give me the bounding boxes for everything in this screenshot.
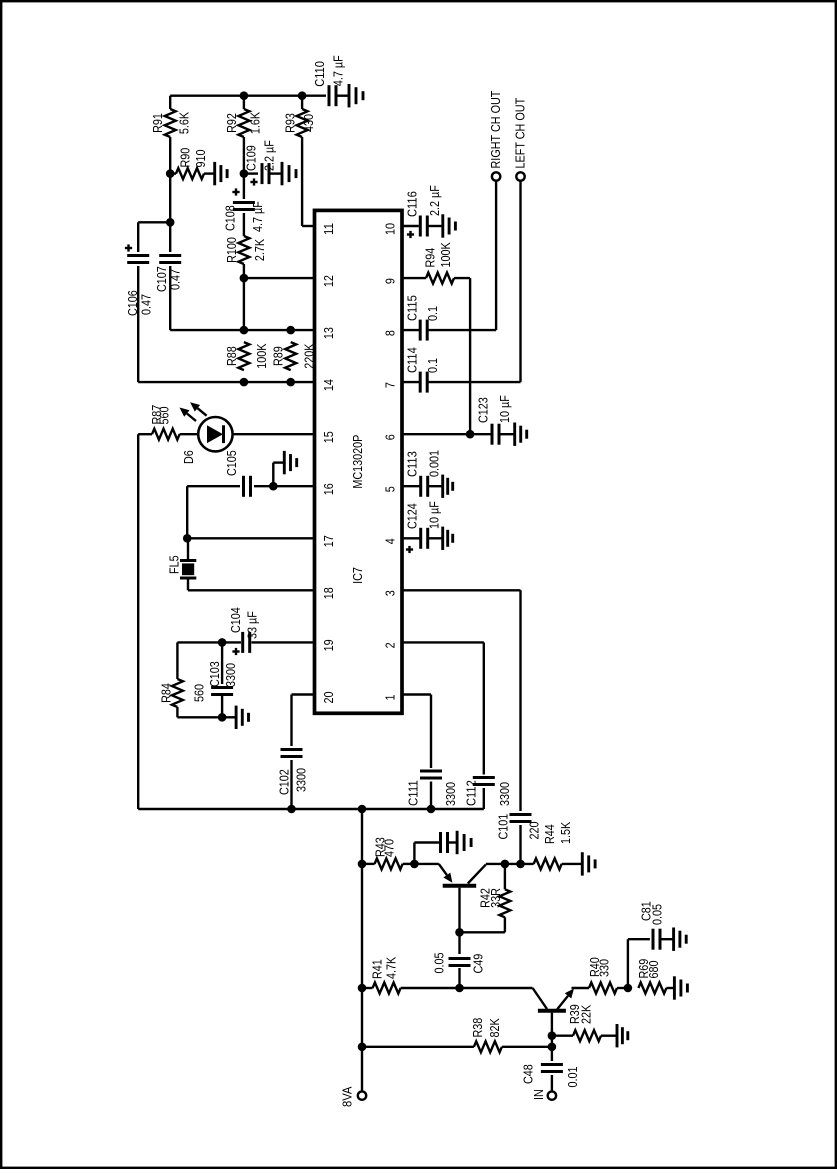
- wire pin 12 net: [244, 277, 315, 279]
- svg-text:C114: C114: [404, 347, 419, 373]
- junction pin19-C103: [218, 638, 227, 647]
- svg-text:R90: R90: [178, 148, 193, 168]
- wire base node to R39: [552, 1034, 573, 1036]
- wire ground branch up: [272, 463, 274, 487]
- svg-text:15: 15: [321, 431, 336, 443]
- svg-text:22K: 22K: [579, 1005, 594, 1024]
- capacitor C110 4.7uF: [312, 55, 346, 106]
- svg-text:R93: R93: [283, 113, 298, 133]
- ground at R90: [204, 162, 227, 185]
- svg-text:12: 12: [321, 275, 336, 287]
- wire R43 to cap node: [403, 863, 415, 865]
- wire R90 left lead: [170, 172, 176, 174]
- wire C108 to R100: [243, 213, 245, 236]
- junction C106 branch: [166, 218, 175, 227]
- ground at C116: [427, 214, 455, 237]
- capacitor C107 0.47: [154, 256, 182, 293]
- wire base node to C49: [458, 932, 460, 954]
- pin number 20: [321, 692, 336, 704]
- svg-text:C123: C123: [476, 397, 491, 423]
- wire left ch vertical: [519, 181, 521, 382]
- svg-text:R44: R44: [542, 824, 557, 844]
- svg-text:R100: R100: [224, 237, 239, 263]
- resistor R38: [470, 1018, 502, 1053]
- svg-text:C112: C112: [463, 780, 478, 806]
- junction pin14-R89: [286, 378, 295, 387]
- svg-text:3: 3: [382, 590, 397, 596]
- pin number 16: [321, 483, 336, 495]
- resistor R90: [176, 148, 208, 179]
- wire FL5 top lead: [187, 538, 189, 560]
- wire to C106: [138, 221, 170, 223]
- wire C101 to Q1 row: [519, 825, 521, 864]
- capacitor C103 3300: [207, 661, 238, 694]
- wire Q2 emitter to R40: [572, 987, 590, 989]
- wire C103 top lead: [221, 642, 223, 684]
- svg-text:1.5K: 1.5K: [558, 822, 573, 844]
- wire C107 top lead: [169, 222, 171, 252]
- junction Q1 base node: [455, 928, 464, 937]
- svg-text:C105: C105: [224, 450, 239, 476]
- wire top supply rail: [170, 94, 326, 96]
- svg-text:33R: 33R: [488, 888, 503, 908]
- svg-text:0.1: 0.1: [425, 358, 440, 373]
- svg-text:C113: C113: [404, 451, 419, 477]
- svg-text:10: 10: [382, 223, 397, 235]
- wire R84 bottom lead: [176, 707, 178, 717]
- ground at Q1 bypass: [448, 831, 472, 854]
- svg-text:D6: D6: [181, 450, 196, 464]
- junction rail-C111: [427, 805, 436, 814]
- svg-text:9: 9: [382, 278, 397, 284]
- svg-text:2.2 µF: 2.2 µF: [427, 185, 442, 216]
- svg-text:R38: R38: [470, 1018, 485, 1038]
- svg-text:LEFT CH OUT: LEFT CH OUT: [513, 98, 528, 169]
- wire bypass cap branch up: [413, 843, 415, 864]
- svg-text:4: 4: [382, 538, 397, 544]
- junction pin12-R100: [240, 274, 249, 283]
- wire R100 to pin12: [243, 264, 245, 278]
- svg-text:2: 2: [382, 642, 397, 648]
- wire pin8 seg b: [427, 329, 496, 331]
- transistor Q2: [533, 988, 574, 1047]
- svg-text:3300: 3300: [497, 782, 512, 806]
- svg-text:100K: 100K: [254, 343, 269, 368]
- junction supply-R38: [358, 1043, 367, 1052]
- resistor R88: [224, 342, 269, 370]
- capacitor C109 2.2uF polarized: [244, 140, 277, 185]
- svg-text:470: 470: [382, 839, 397, 857]
- ground at R44: [562, 852, 595, 875]
- svg-text:C115: C115: [404, 295, 419, 321]
- svg-text:910: 910: [193, 150, 208, 168]
- wire pin 1 stub: [402, 693, 431, 695]
- wire C48 to IN: [551, 1075, 553, 1091]
- svg-text:13: 13: [321, 327, 336, 339]
- resistor R93: [283, 109, 317, 137]
- pin number 4: [382, 538, 397, 544]
- capacitor C108 4.7uF polarized: [222, 188, 264, 232]
- wire pin16 corner down: [186, 486, 188, 538]
- svg-text:16: 16: [321, 483, 336, 495]
- pin number 13: [321, 327, 336, 339]
- svg-text:33 µF: 33 µF: [245, 611, 260, 639]
- resistor R42: [478, 888, 511, 917]
- pin number 2: [382, 642, 397, 648]
- svg-text:C108: C108: [222, 205, 237, 231]
- svg-text:430: 430: [301, 114, 316, 132]
- wire pin20 down to C102: [290, 695, 292, 747]
- svg-text:4.7 µF: 4.7 µF: [331, 55, 346, 86]
- svg-text:330: 330: [597, 959, 612, 977]
- pin number 17: [321, 535, 336, 547]
- wire R92 to C109 node: [243, 137, 245, 174]
- wire C105 to pin 16: [254, 485, 315, 487]
- ground at C81: [660, 928, 686, 951]
- pin number 6: [382, 434, 397, 440]
- wire bottom rail: [138, 808, 484, 810]
- wire R91 top lead: [169, 96, 171, 109]
- svg-text:2.2 µF: 2.2 µF: [262, 140, 277, 171]
- junction pin13-R88: [240, 326, 249, 335]
- wire C111 to rail: [430, 782, 432, 810]
- svg-text:3300: 3300: [223, 663, 238, 687]
- wire base node down to C48: [551, 1047, 553, 1061]
- wire R94 net down to pin6: [469, 278, 471, 434]
- wire pin7 seg a: [402, 381, 420, 383]
- svg-text:220K: 220K: [302, 343, 317, 368]
- wire left rail: [137, 434, 139, 809]
- wire R42 bottom lead: [504, 917, 506, 932]
- svg-text:C103: C103: [207, 661, 222, 687]
- svg-text:C48: C48: [520, 1064, 535, 1084]
- wire R40 to C81 node: [617, 987, 628, 989]
- wire C112 to rail: [483, 788, 485, 809]
- wire pin 17 net: [187, 537, 314, 539]
- terminal 8VA: [340, 1086, 367, 1107]
- svg-text:IN: IN: [531, 1089, 546, 1100]
- svg-text:FL5: FL5: [166, 555, 181, 574]
- wire pin 20 stub: [292, 693, 315, 695]
- wire pin16 left seg: [187, 485, 240, 487]
- resistor R41: [370, 957, 401, 994]
- wire pin7 seg b: [427, 381, 520, 383]
- ground at C124: [428, 527, 453, 550]
- wire to Q2 collector: [460, 987, 533, 989]
- wire Q1 collector lead: [486, 863, 534, 865]
- svg-text:10 µF: 10 µF: [497, 395, 512, 423]
- capacitor C123 10uF: [476, 395, 512, 445]
- wire R42 top lead: [504, 864, 506, 889]
- svg-text:0.05: 0.05: [431, 953, 446, 974]
- resistor R91: [150, 109, 191, 137]
- svg-text:5: 5: [382, 486, 397, 492]
- resistor R89: [271, 342, 317, 370]
- pin number 9: [382, 278, 397, 284]
- wire pin 2 net: [402, 641, 484, 643]
- wire R94 to corner: [454, 277, 470, 279]
- junction Q1-R42: [501, 860, 510, 869]
- capacitor C111 3300: [406, 771, 459, 806]
- resistor R92: [224, 109, 263, 137]
- wire R93 to pin11: [301, 137, 303, 226]
- pin number 11: [321, 223, 336, 235]
- svg-text:20: 20: [321, 692, 336, 704]
- svg-text:0.01: 0.01: [565, 1067, 580, 1088]
- terminal LEFT CH OUT: [513, 98, 528, 181]
- capacitor C102 3300: [277, 750, 309, 796]
- junction pin13-R89: [286, 326, 295, 335]
- wire pin 13 net: [170, 329, 314, 331]
- capacitor C115 0.1: [404, 295, 440, 340]
- wire R90 node down to C106/C107 node: [169, 174, 171, 223]
- resonator FL5: [166, 555, 196, 578]
- svg-text:C49: C49: [471, 954, 486, 974]
- pin number 7: [382, 382, 397, 388]
- svg-text:4.7 µF: 4.7 µF: [250, 201, 265, 232]
- wire pin 11 net: [302, 225, 314, 227]
- terminal IN: [531, 1089, 556, 1100]
- junction pin14-R88: [240, 378, 249, 387]
- ground at C109: [269, 162, 296, 185]
- wire R84 top lead: [176, 642, 178, 679]
- svg-text:8: 8: [382, 330, 397, 336]
- capacitor bypass at Q1: [414, 832, 447, 853]
- wire supply vertical: [361, 809, 363, 1091]
- pin number 12: [321, 275, 336, 287]
- svg-text:19: 19: [321, 639, 336, 651]
- svg-text:1.6K: 1.6K: [248, 112, 263, 134]
- wire pin 6 net: [402, 433, 491, 435]
- pin number 3: [382, 590, 397, 596]
- svg-text:C109: C109: [244, 145, 259, 171]
- svg-text:1: 1: [382, 695, 397, 701]
- wire C49 to R41 row: [458, 968, 460, 988]
- svg-text:C102: C102: [277, 769, 292, 795]
- resistor R84: [159, 679, 207, 707]
- svg-text:C124: C124: [404, 503, 419, 529]
- svg-text:0.47: 0.47: [139, 294, 154, 315]
- svg-text:R41: R41: [370, 959, 385, 979]
- capacitor C112 3300: [463, 778, 512, 807]
- svg-text:C104: C104: [228, 607, 243, 633]
- resistor R40: [587, 957, 617, 993]
- svg-text:220: 220: [526, 822, 541, 840]
- wire pin19 left seg: [177, 641, 241, 643]
- IC reference IC7: [350, 567, 365, 584]
- pin number 18: [321, 587, 336, 599]
- wire pin8 seg a: [402, 329, 420, 331]
- ground at pin16: [273, 451, 296, 474]
- svg-text:8VA: 8VA: [340, 1086, 355, 1107]
- wire pin 14 net: [138, 381, 314, 383]
- wire pin 3 net: [402, 589, 521, 591]
- wire pin1 down: [430, 695, 432, 769]
- svg-text:C101: C101: [496, 814, 511, 840]
- svg-text:11: 11: [321, 223, 336, 235]
- wire C102 to bottom rail: [290, 760, 292, 809]
- svg-text:IC7: IC7: [350, 567, 365, 584]
- capacitor C113 0.001: [402, 450, 441, 497]
- svg-text:7: 7: [382, 382, 397, 388]
- junction rail-C102: [287, 805, 296, 814]
- svg-text:RIGHT CH OUT: RIGHT CH OUT: [488, 91, 503, 169]
- capacitor C116 2.2uF polarized: [402, 185, 442, 238]
- wire pin9 to R94: [402, 277, 426, 279]
- wire R91 to R90 node: [169, 137, 171, 174]
- svg-text:C111: C111: [406, 780, 421, 806]
- capacitor C49 0.05: [431, 953, 485, 974]
- wire right ch vertical: [495, 181, 497, 330]
- wire R87 to D6: [180, 433, 199, 435]
- capacitor C105: [224, 450, 251, 497]
- svg-text:MC13020P: MC13020P: [350, 435, 365, 489]
- svg-text:R88: R88: [224, 346, 239, 366]
- ground at C103: [222, 706, 248, 729]
- junction Q2 base-R39: [548, 1031, 557, 1040]
- wire supply to R43: [362, 863, 375, 865]
- svg-text:560: 560: [192, 684, 207, 702]
- svg-text:0.05: 0.05: [650, 904, 665, 925]
- junction rail-supply: [358, 805, 367, 814]
- resistor R44: [534, 822, 574, 870]
- junction supply-R41: [358, 984, 367, 993]
- pin number 5: [382, 486, 397, 492]
- wire supply to R38: [362, 1046, 474, 1048]
- svg-text:14: 14: [321, 379, 336, 391]
- svg-text:560: 560: [157, 407, 172, 425]
- ground at C110: [336, 84, 363, 107]
- svg-text:6: 6: [382, 434, 397, 440]
- svg-text:R89: R89: [271, 346, 286, 366]
- wire pin 18 net: [188, 589, 315, 591]
- svg-text:C116: C116: [404, 191, 419, 217]
- svg-text:C110: C110: [312, 61, 327, 87]
- resistor R69: [636, 959, 666, 994]
- junction rail-R93: [298, 91, 307, 100]
- resistor R39: [567, 1004, 601, 1041]
- junction pin17-FL5: [183, 534, 192, 543]
- ground at C123: [499, 423, 527, 446]
- svg-text:R84: R84: [159, 683, 174, 703]
- svg-text:18: 18: [321, 587, 336, 599]
- LED D6: [180, 402, 233, 464]
- junction rail-R92: [240, 91, 249, 100]
- junction R40-R69-C81: [624, 984, 633, 993]
- terminal RIGHT CH OUT: [488, 91, 503, 181]
- capacitor C114 0.1: [404, 347, 440, 392]
- wire R100 node down to pin13: [243, 278, 245, 330]
- junction R92-C109: [240, 169, 249, 178]
- wire FL5 bottom lead: [187, 578, 189, 590]
- pin number 1: [382, 695, 397, 701]
- IC U-IC7 MC13020P body: [315, 210, 403, 713]
- svg-text:5.6K: 5.6K: [177, 112, 192, 134]
- wire R92 top lead: [243, 96, 245, 109]
- svg-text:4.7K: 4.7K: [384, 957, 399, 979]
- ground at C113: [428, 475, 453, 498]
- wire supply to R41: [362, 987, 373, 989]
- pin number 19: [321, 639, 336, 651]
- wire R87 left lead: [138, 433, 152, 435]
- capacitor C106 0.47 polarized: [125, 244, 154, 316]
- ground at R69: [666, 976, 687, 999]
- junction C103-gnd: [218, 713, 227, 722]
- pin number 10: [382, 223, 397, 235]
- wire C103 bottom lead: [221, 695, 223, 718]
- svg-text:2.7K: 2.7K: [252, 239, 267, 261]
- wire C81 branch up: [627, 939, 629, 988]
- wire R41 to C49 node: [401, 987, 460, 989]
- junction pin6-R94: [466, 430, 475, 439]
- wire pin2 down: [483, 642, 485, 774]
- svg-text:3300: 3300: [294, 768, 309, 792]
- resistor R43: [373, 837, 403, 869]
- junction C49-R41 row: [455, 984, 464, 993]
- capacitor C104 33uF polarized: [228, 607, 260, 655]
- wire C106 to pin14 line: [137, 266, 139, 382]
- wire R38 to base node: [502, 1046, 552, 1048]
- capacitor C124 10uF polarized: [402, 501, 441, 553]
- svg-text:0.001: 0.001: [426, 450, 441, 477]
- junction Q1-C101: [516, 860, 525, 869]
- pin number 15: [321, 431, 336, 443]
- wire C107 to pin13 line: [169, 266, 171, 330]
- junction Q2 base-R38: [548, 1043, 557, 1052]
- capacitor C81 0.05: [628, 901, 665, 950]
- svg-text:82K: 82K: [487, 1018, 502, 1037]
- svg-text:R92: R92: [224, 113, 239, 133]
- resistor R100: [224, 236, 267, 264]
- capacitor C48 0.01: [520, 1064, 580, 1087]
- wire R42 to base node: [460, 931, 505, 933]
- resistor R87: [149, 405, 180, 440]
- svg-text:3300: 3300: [443, 782, 458, 806]
- svg-text:680: 680: [646, 961, 661, 979]
- ground at R39: [601, 1024, 628, 1047]
- svg-text:10 µF: 10 µF: [426, 501, 441, 529]
- wire C106 top lead: [137, 222, 139, 252]
- resistor R94: [423, 242, 455, 284]
- svg-text:0.1: 0.1: [425, 306, 440, 321]
- wire C104 to pin 19: [251, 641, 314, 643]
- svg-text:100K: 100K: [438, 242, 453, 267]
- IC part number MC13020P: [350, 435, 365, 489]
- pin number 14: [321, 379, 336, 391]
- wire R93 top lead: [301, 96, 303, 109]
- wire pin3 down: [519, 590, 521, 811]
- wire D6 to pin 15: [233, 433, 315, 435]
- junction pin16 ground branch: [269, 482, 278, 491]
- wire node to Q1 emitter: [414, 863, 438, 865]
- junction Q1 emitter node: [410, 860, 419, 869]
- svg-text:R91: R91: [150, 113, 165, 133]
- junction R91-R90: [166, 169, 175, 178]
- pin number 8: [382, 330, 397, 336]
- transistor Q1: [439, 864, 486, 932]
- junction supply-R43: [358, 860, 367, 869]
- svg-text:17: 17: [321, 535, 336, 547]
- svg-text:R94: R94: [423, 248, 438, 268]
- wire R84 to gnd node: [177, 716, 222, 718]
- wire C109node to C108: [243, 174, 245, 199]
- capacitor C101 220: [496, 814, 542, 840]
